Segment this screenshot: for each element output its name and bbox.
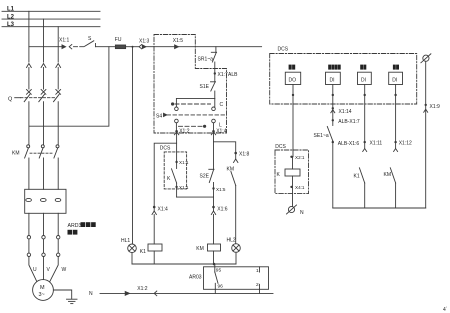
svg-text:K1: K1 <box>140 249 146 255</box>
coil K1 <box>140 244 162 255</box>
node X1 bottom of K <box>175 183 188 197</box>
wire X1:4 down <box>213 131 215 169</box>
contact SE1~a <box>314 127 333 142</box>
terminal X1:8 <box>234 152 250 163</box>
svg-text:KM: KM <box>196 246 204 252</box>
terminal X1:9 <box>424 104 440 112</box>
wire branch to K1 coil <box>154 143 176 207</box>
svg-text:HL1: HL1 <box>121 238 130 244</box>
terminal X1:6 <box>211 197 228 214</box>
labels U V W <box>33 267 67 273</box>
svg-text:DCS: DCS <box>278 47 289 53</box>
power bus L1 <box>2 7 100 13</box>
wire K1 to bus <box>153 251 155 264</box>
wire Q to KM phase A <box>28 102 30 145</box>
svg-text:W: W <box>62 267 67 273</box>
terminal X1:4 <box>211 128 226 134</box>
wire ARD3 to terminals phase B <box>43 213 45 235</box>
wire DI run down <box>332 85 334 126</box>
local box ALB boundary (dash-dot) <box>154 35 227 134</box>
label run status (CJK) <box>328 65 340 70</box>
svg-text:X1:1: X1:1 <box>179 185 189 190</box>
terminal X1:11 <box>363 140 383 151</box>
svg-text:V: V <box>47 267 51 273</box>
wire phase B drop <box>43 19 45 62</box>
node ALB-X1:7 <box>332 119 360 125</box>
node KM coil to AR03 <box>213 263 216 266</box>
selector S4 contact circles C row <box>175 107 216 111</box>
label ARD3 power note <box>68 222 96 234</box>
node X1:7 ALB <box>214 72 239 78</box>
wire bus to AR03 95 <box>214 264 216 267</box>
wire S4 L to X1:4 <box>213 123 215 132</box>
wire S to FU <box>96 46 116 48</box>
label fault (CJK) <box>393 65 399 70</box>
svg-text:S4: S4 <box>156 114 162 120</box>
node to other sheet (circle slash) <box>421 54 431 63</box>
terminal circles row 1 <box>27 236 60 239</box>
wire terminal rows phase C <box>57 239 59 253</box>
selector switch S4 top bar <box>176 98 214 107</box>
svg-text:X4:1: X4:1 <box>295 185 305 190</box>
svg-text:ALB: ALB <box>228 72 238 78</box>
plug-in connector phase A <box>27 64 32 68</box>
selector S4 handle <box>156 113 226 119</box>
lamp HL1 <box>121 238 136 253</box>
node ALB-X1:6 <box>332 141 360 147</box>
wire phase B to Q <box>43 68 45 90</box>
lamp HL2 <box>227 238 241 253</box>
svg-text:S1E: S1E <box>200 84 210 90</box>
wire U to motor <box>29 257 37 282</box>
svg-text:95: 95 <box>216 268 222 274</box>
wire HL2 to bus <box>235 252 237 264</box>
svg-text:C: C <box>220 102 224 108</box>
wire AR03 2 to N bus <box>259 289 261 293</box>
svg-text:L2: L2 <box>7 14 15 20</box>
power bus L3 <box>2 22 100 28</box>
wire KM to ARD3 box phase C <box>57 158 59 189</box>
contact SR1~a <box>198 47 217 63</box>
wire KM coil to bus <box>213 251 215 264</box>
wire V to motor <box>43 257 45 280</box>
svg-text:X1:5: X1:5 <box>173 38 184 44</box>
terminal X1:12 <box>394 140 412 151</box>
wire right rail <box>425 61 427 208</box>
coil K <box>277 157 301 178</box>
middle DCS box (dashed) <box>160 145 187 189</box>
contact KM aux right <box>384 168 396 183</box>
svg-text:HL2: HL2 <box>227 238 236 244</box>
svg-text:DCS: DCS <box>160 145 171 151</box>
AR03 terminal 2 <box>256 282 260 289</box>
node X1:5 below S2E <box>212 187 226 192</box>
wire join bar K and S2E <box>177 196 214 198</box>
svg-text:DI: DI <box>361 77 366 83</box>
svg-text:X1:4: X1:4 <box>216 128 227 134</box>
svg-text:X1:11: X1:11 <box>370 140 383 146</box>
plug-in connector phase C <box>56 64 61 68</box>
svg-text:S2E: S2E <box>200 174 210 180</box>
wire X1:6 to KM coil <box>213 215 215 245</box>
contact S2E <box>200 169 215 197</box>
node X1:1 tap wire <box>29 46 62 48</box>
svg-text:ALB-X1:6: ALB-X1:6 <box>338 141 360 147</box>
node DI fault boundary dot <box>394 94 396 96</box>
label stop (CJK) <box>360 65 366 70</box>
wire KM to ARD3 box phase A <box>28 158 30 189</box>
node control rail junction <box>132 46 134 48</box>
svg-text:X1:12: X1:12 <box>399 140 412 146</box>
terminal X1:5 arrow <box>173 38 184 49</box>
power bus L2 <box>2 14 100 20</box>
svg-text:S: S <box>88 36 92 42</box>
svg-text:X1:1: X1:1 <box>59 38 70 44</box>
wire SE1 to bus <box>332 141 334 208</box>
svg-text:X1:3: X1:3 <box>139 39 150 45</box>
label start (CJK) <box>289 65 296 70</box>
wire FU to X1:3 <box>126 46 139 48</box>
wire DO down <box>292 85 294 157</box>
terminal X1:14 <box>331 107 352 115</box>
AR03 terminal 1 <box>256 267 260 274</box>
contact K1 <box>354 168 365 183</box>
wire KM contact to bus <box>395 183 397 208</box>
svg-text:DCS: DCS <box>275 144 286 150</box>
svg-text:KM: KM <box>384 172 392 178</box>
svg-text:L1: L1 <box>7 7 15 13</box>
coil bus wire <box>132 263 236 265</box>
wire control tap riser <box>29 47 109 127</box>
wire S1E to S4 bar <box>214 91 216 98</box>
svg-text:U: U <box>33 267 37 273</box>
svg-text:4´: 4´ <box>443 307 448 313</box>
terminal X1:4 lower <box>152 206 168 215</box>
svg-text:FU: FU <box>115 37 122 43</box>
contact S1E <box>200 82 216 91</box>
DI box stop <box>358 72 372 84</box>
svg-text:Q: Q <box>8 97 13 103</box>
svg-text:KM: KM <box>227 166 235 172</box>
wire phase C drop <box>57 27 59 62</box>
wire phase A drop <box>28 11 30 62</box>
wire W to motor <box>50 257 58 282</box>
svg-text:X1:2: X1:2 <box>179 128 190 134</box>
DCS cabinet box (top right, dash-dot) <box>270 47 417 105</box>
wire KM aux to HL2 <box>235 186 237 244</box>
breaker Q <box>8 90 61 103</box>
wire X1:2 down <box>176 131 178 162</box>
terminal X1:2 <box>174 128 189 134</box>
DI box run <box>326 72 341 84</box>
svg-text:AR03: AR03 <box>189 275 202 281</box>
selector S4 contact circles L row <box>175 119 216 123</box>
wire motor to ground <box>53 290 71 299</box>
N bus arrow <box>125 292 129 296</box>
contact KM aux <box>227 166 236 185</box>
wire terminal rows phase B <box>43 239 45 253</box>
wire Q to KM phase B <box>43 102 45 145</box>
switch S <box>85 36 96 47</box>
wire phase A to Q <box>28 68 30 90</box>
wire DI stop down <box>364 85 366 149</box>
wire K to N node <box>292 187 294 207</box>
svg-text:K: K <box>277 172 281 178</box>
wire DI fault down <box>395 85 397 149</box>
svg-text:K: K <box>167 176 171 182</box>
terminal X1:1 <box>59 38 72 49</box>
wire KM to ARD3 box phase B <box>43 158 45 189</box>
DI box fault <box>389 72 403 84</box>
node N (circle slash) <box>287 205 305 216</box>
selector S4 position L bridge <box>179 123 223 129</box>
terminal circles row 2 <box>27 253 60 256</box>
wire SR1 to X1:7 <box>214 62 216 81</box>
node X2: <box>290 155 305 160</box>
wire HL1 to bus <box>131 253 133 264</box>
svg-text:2: 2 <box>256 282 259 288</box>
wire ARD3 to terminals phase A <box>28 213 30 235</box>
svg-text:ALB-X1:7: ALB-X1:7 <box>338 119 360 125</box>
svg-text:DI: DI <box>330 77 335 83</box>
motor M <box>33 280 54 301</box>
svg-text:X1:8: X1:8 <box>239 152 250 158</box>
svg-text:SR1~a: SR1~a <box>198 57 214 63</box>
node X1 top of K <box>175 160 188 165</box>
svg-text:1: 1 <box>256 268 259 274</box>
wire S4 C to X1:2 <box>175 123 177 132</box>
wire N bus <box>100 292 273 294</box>
terminal X1:2 bottom <box>137 286 157 296</box>
ground <box>67 299 78 303</box>
rail to HL1 <box>132 47 134 244</box>
svg-text:N: N <box>300 210 304 216</box>
wire K1 contact to bus <box>364 183 366 208</box>
svg-text:X1:9: X1:9 <box>430 104 441 110</box>
svg-text:KM: KM <box>12 151 20 157</box>
wire main control line <box>146 46 262 48</box>
svg-text:DO: DO <box>289 77 297 83</box>
svg-text:K1: K1 <box>354 174 360 180</box>
svg-text:X1:7: X1:7 <box>218 72 229 78</box>
svg-text:X1:4: X1:4 <box>158 207 169 213</box>
svg-text:X1:5: X1:5 <box>216 187 226 192</box>
relay AR03 <box>189 267 269 290</box>
wire ARD3 to terminals phase C <box>57 213 59 235</box>
svg-text:ARD3: ARD3 <box>68 223 82 229</box>
wire X1:1 to S <box>74 46 85 48</box>
wire terminal rows phase A <box>28 239 30 253</box>
wire branch to KM aux <box>214 142 236 153</box>
terminal X1:3 <box>139 39 150 49</box>
coil KM <box>196 244 220 252</box>
svg-text:N: N <box>89 291 93 297</box>
svg-text:X2:1: X2:1 <box>295 155 305 160</box>
wire AR03 96 to N bus <box>214 289 216 293</box>
wire phase C to Q <box>57 68 59 90</box>
fuse FU <box>115 37 126 49</box>
svg-text:3~: 3~ <box>39 292 45 298</box>
selector S4 position C bridge <box>171 102 224 108</box>
DCS K coil box (dash-dot) <box>275 144 309 193</box>
svg-text:X1:2: X1:2 <box>137 286 148 292</box>
svg-text:SE1~a: SE1~a <box>314 133 329 139</box>
contact K (DCS remote) <box>167 162 177 183</box>
ARD3 current transformer box <box>25 189 66 213</box>
node X4: <box>290 176 305 190</box>
wire X1:4 to K1 coil <box>153 215 155 245</box>
svg-text:M: M <box>40 285 45 291</box>
svg-text:X1:6: X1:6 <box>217 207 228 213</box>
svg-text:X1:1: X1:1 <box>179 160 189 165</box>
node DI run boundary dot <box>332 94 334 96</box>
node DI stop boundary dot <box>364 94 366 96</box>
svg-text:X1:14: X1:14 <box>339 109 352 115</box>
AR03 contact 95-96 <box>215 267 223 290</box>
svg-text:L3: L3 <box>7 22 15 28</box>
wire Q to KM phase C <box>57 102 59 145</box>
contactor KM main contacts <box>12 145 59 158</box>
svg-text:DI: DI <box>392 77 397 83</box>
plug-in connector phase B <box>41 64 46 68</box>
node DO boundary dot <box>292 94 294 96</box>
DO box start <box>285 72 300 84</box>
svg-text:96: 96 <box>218 284 224 290</box>
DCS return bus <box>333 207 426 209</box>
